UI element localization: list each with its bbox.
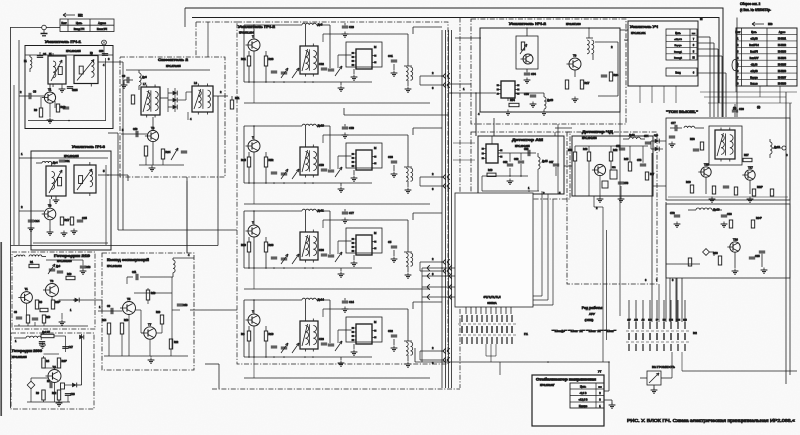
svg-text:C32: C32 (388, 329, 393, 333)
svg-text:ИР1.376.005: ИР1.376.005 (166, 65, 181, 68)
svg-text:Ш-Ш6/6: Ш-Ш6/6 (778, 71, 787, 73)
svg-text:R16: R16 (124, 320, 129, 322)
svg-text:+12,6В: +12,6В (750, 39, 758, 41)
svg-text:+12,6 В: +12,6 В (578, 398, 587, 402)
svg-text:C5: C5 (388, 240, 392, 244)
svg-text:C77: C77 (671, 122, 676, 125)
svg-text:С62: С62 (503, 161, 508, 164)
svg-text:R50: R50 (568, 149, 573, 152)
svg-text:C23: C23 (349, 25, 354, 29)
svg-text:R19: R19 (151, 292, 156, 295)
svg-text:ИР2.037.009: ИР2.037.009 (566, 23, 581, 26)
svg-text:Др11: Др11 (317, 209, 324, 213)
svg-text:R58: R58 (690, 138, 695, 141)
svg-text:R64*: R64* (756, 217, 762, 220)
svg-text:R24: R24 (165, 150, 170, 154)
svg-text:R19: R19 (46, 317, 51, 319)
svg-text:C14: C14 (349, 300, 354, 304)
svg-text:ИР3.385.005: ИР3.385.005 (12, 356, 27, 359)
svg-text:C14: C14 (34, 219, 39, 223)
svg-text:Др19: Др19 (713, 208, 720, 212)
svg-text:С35: С35 (82, 216, 87, 220)
svg-text:R14: R14 (102, 320, 107, 322)
svg-text:ГРМ: ГРМ (669, 320, 673, 322)
svg-text:ВыхАРУ: ВыхАРУ (750, 57, 759, 60)
svg-text:Смеситель 2: Смеситель 2 (158, 57, 189, 62)
svg-text:C68: C68 (388, 155, 393, 159)
svg-text:Др13: Др13 (547, 98, 554, 102)
svg-text:C80: C80 (739, 107, 744, 111)
svg-text:В2: В2 (693, 331, 697, 335)
svg-text:Вход ПЧ: Вход ПЧ (74, 27, 85, 31)
svg-text:R17: R17 (584, 81, 589, 85)
svg-text:R10: R10 (268, 332, 273, 336)
svg-text:Др14: Др14 (317, 298, 324, 302)
svg-text:"Тлф" "Тлг 2" "Тлг 2" "Тлг": "Тлф" "Тлг 2" "Тлг 2" "Тлг" (552, 329, 616, 333)
svg-text:С74: С74 (644, 135, 649, 138)
svg-text:С16: С16 (86, 266, 91, 269)
svg-text:Сборое зак. 2: Сборое зак. 2 (740, 2, 761, 6)
svg-text:кон: кон (598, 387, 601, 389)
svg-text:R52: R52 (268, 158, 273, 162)
svg-text:С23: С23 (71, 394, 76, 396)
svg-text:Цепь: Цепь (580, 385, 587, 389)
svg-text:ИР1.383.009: ИР1.383.009 (57, 260, 72, 263)
svg-text:Каскад согласующий: Каскад согласующий (107, 258, 150, 262)
svg-text:Вход: Вход (675, 73, 681, 75)
svg-text:Т17: Т17 (748, 165, 753, 169)
svg-text:УТ: УТ (598, 370, 602, 374)
svg-text:C79: C79 (670, 212, 675, 215)
svg-text:Др15: Др15 (542, 160, 548, 163)
svg-text:Цепь: Цепь (76, 21, 83, 25)
svg-text:R45: R45 (624, 158, 629, 161)
svg-text:ИР3.233.00Г: ИР3.233.00Г (540, 384, 555, 387)
svg-text:R40*: R40* (62, 361, 67, 363)
svg-text:Корпус: Корпус (750, 77, 758, 79)
svg-text:C86: C86 (319, 248, 324, 252)
svg-text:Гетеродин 210: Гетеродин 210 (54, 254, 90, 258)
svg-text:Усилитель УЧ: Усилитель УЧ (630, 25, 658, 29)
svg-text:Т9: Т9 (573, 54, 577, 58)
svg-text:C23: C23 (319, 337, 324, 341)
svg-text:R40*: R40* (55, 302, 60, 304)
svg-text:Ш-Ш6/8: Ш-Ш6/8 (778, 84, 787, 86)
svg-text:R11: R11 (235, 97, 240, 100)
svg-text:+12,6 В: +12,6 В (674, 39, 682, 41)
svg-text:C41: C41 (388, 54, 393, 58)
svg-text:ИР1.024.005: ИР1.024.005 (66, 50, 81, 53)
svg-text:Цепь: Цепь (751, 32, 757, 34)
svg-text:АРУ: АРУ (589, 312, 595, 316)
svg-text:C83: C83 (727, 213, 732, 216)
svg-text:Ш-Ш6/1: Ш-Ш6/1 (778, 39, 787, 41)
svg-text:С30: С30 (99, 51, 104, 53)
svg-text:Усилитель ПЧ-1: Усилитель ПЧ-1 (45, 39, 82, 44)
svg-text:R10: R10 (67, 273, 72, 276)
svg-text:R40: R40 (488, 169, 493, 172)
svg-text:С31: С31 (65, 160, 70, 163)
svg-text:Стабилизатор напряжения: Стабилизатор напряжения (536, 378, 596, 382)
svg-text:R22: R22 (174, 342, 179, 344)
svg-text:C56: C56 (524, 92, 529, 96)
svg-text:С73: С73 (624, 183, 629, 185)
svg-text:С67: С67 (549, 161, 554, 164)
svg-text:Др13: Др13 (629, 134, 635, 137)
svg-text:000В2А: 000В2А (487, 301, 497, 305)
svg-text:(к Вкл. № 6/150873р-: (к Вкл. № 6/150873р- (740, 8, 771, 12)
svg-text:ИР1.021.001: ИР1.021.001 (631, 32, 646, 35)
svg-text:C85: C85 (755, 255, 760, 258)
svg-text:R46: R46 (583, 148, 588, 151)
svg-text:Гетеродин 2000: Гетеродин 2000 (12, 349, 42, 353)
svg-text:R20: R20 (156, 312, 161, 314)
svg-text:П1: П1 (524, 332, 528, 336)
svg-text:"ТОН ВЫСШ.": "ТОН ВЫСШ." (666, 110, 698, 114)
svg-text:С13: С13 (183, 304, 188, 307)
svg-text:+12,6В: +12,6В (750, 71, 758, 73)
svg-text:Ш: Ш (692, 58, 694, 60)
svg-text:ВСШ: ВСШ (676, 320, 680, 322)
svg-text:Ш-Ш6/5: Ш-Ш6/5 (778, 64, 787, 66)
svg-text:РИС. У. БЛОК ПЧ. Схема электри: РИС. У. БЛОК ПЧ. Схема электрическая при… (627, 418, 796, 423)
svg-text:Ш-Ш6/2: Ш-Ш6/2 (778, 45, 787, 47)
svg-text:ЗЧ,Г3,ГВ,ГН,Л: ЗЧ,Г3,ГВ,ГН,Л (483, 295, 500, 299)
svg-text:Блок ВЧ: Блок ВЧ (97, 27, 107, 31)
svg-text:Корпус: Корпус (674, 45, 682, 47)
svg-text:Др16: Др16 (774, 146, 780, 149)
svg-text:R54: R54 (510, 98, 515, 102)
svg-text:С60: С60 (514, 158, 519, 161)
svg-text:Т1: Т1 (25, 287, 29, 291)
svg-text:Конт: Конт (61, 22, 67, 25)
svg-text:Вых.зв: Вых.зв (750, 84, 758, 86)
svg-text:С11: С11 (132, 271, 137, 274)
svg-text:ИР1.204.008: ИР1.204.008 (582, 137, 597, 140)
svg-text:R66: R66 (268, 243, 273, 247)
svg-text:Цепь: Цепь (675, 33, 681, 35)
svg-text:R49: R49 (686, 181, 691, 184)
svg-text:-6,3 В: -6,3 В (580, 391, 587, 395)
svg-text:R38: R38 (268, 57, 273, 61)
svg-text:Детектор АМ: Детектор АМ (512, 137, 543, 142)
svg-text:Др4: Др4 (53, 161, 58, 165)
svg-text:Т15: Т15 (704, 162, 709, 166)
svg-text:R57: R57 (744, 154, 749, 157)
svg-text:Адрес: Адрес (779, 31, 786, 34)
svg-text:С17: С17 (69, 346, 74, 349)
svg-text:Ш-Ш6/7: Ш-Ш6/7 (778, 77, 787, 79)
svg-text:R47: R47 (650, 174, 655, 176)
svg-text:Др10: Др10 (317, 124, 324, 128)
svg-text:Адрес: Адрес (98, 21, 106, 25)
svg-text:Усилитель НЧ-2: Усилитель НЧ-2 (509, 21, 547, 26)
svg-text:С58: С58 (524, 148, 529, 151)
svg-text:R17: R17 (64, 218, 69, 222)
svg-text:Ш-Ш6/3: Ш-Ш6/3 (778, 51, 787, 53)
svg-text:ИР1.024.005: ИР1.024.005 (64, 155, 79, 158)
svg-text:C32: C32 (319, 62, 324, 66)
svg-text:R42: R42 (613, 149, 618, 152)
svg-text:Ш-Ш6/4: Ш-Ш6/4 (778, 58, 787, 60)
svg-text:Т5: Т5 (127, 297, 131, 301)
svg-text:Ш2: Ш2 (78, 14, 83, 18)
svg-text:ВЫ ГРОМКОСТЬ: ВЫ ГРОМКОСТЬ (652, 365, 675, 369)
svg-text:С76: С76 (637, 159, 642, 162)
svg-text:Корпус: Корпус (579, 404, 588, 408)
svg-text:C59: C59 (319, 163, 324, 167)
svg-text:-12,6В: -12,6В (751, 64, 758, 66)
svg-text:(ОБЩ): (ОБЩ) (585, 318, 594, 322)
svg-text:ЛАГ: ЛАГ (627, 319, 630, 322)
svg-text:Т3: Т3 (50, 279, 54, 283)
svg-text:ВыхПЧ-2: ВыхПЧ-2 (749, 45, 759, 47)
svg-text:C54: C54 (531, 72, 536, 76)
svg-text:С72: С72 (616, 145, 621, 148)
svg-text:Усилитель ПЧ-3: Усилитель ПЧ-3 (72, 144, 106, 149)
svg-text:Т7: Т7 (148, 322, 152, 326)
svg-text:Род работы: Род работы (582, 306, 603, 310)
svg-text:кон: кон (692, 33, 695, 35)
svg-text:Выход2: Выход2 (674, 58, 683, 60)
svg-text:Др6: Др6 (142, 75, 147, 79)
svg-text:Др2 R7: Др2 R7 (42, 331, 51, 334)
svg-text:R51*: R51* (757, 186, 763, 189)
svg-text:Ш3: Ш3 (768, 22, 773, 26)
svg-text:ИР1.240.002: ИР1.240.002 (107, 265, 122, 268)
svg-text:С285: С285 (72, 90, 78, 92)
svg-text:(2): (2) (757, 105, 760, 109)
svg-text:Т16: Т16 (733, 237, 738, 241)
svg-text:C77: C77 (349, 211, 354, 215)
svg-text:Детектор ЧД: Детектор ЧД (582, 129, 613, 134)
svg-text:Выход1: Выход1 (674, 51, 683, 53)
svg-text:С19: С19 (133, 128, 138, 131)
svg-text:C50: C50 (349, 126, 354, 130)
svg-text:Др6: Др6 (56, 266, 61, 268)
svg-text:ВыхИЧ: ВыхИЧ (750, 51, 758, 53)
svg-text:Др8: Др8 (317, 23, 322, 27)
